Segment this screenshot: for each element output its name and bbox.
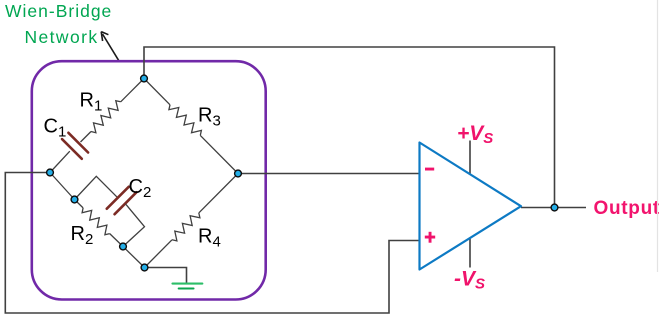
wire bottom node to ground (145, 268, 187, 284)
wire negative supply (469, 238, 471, 268)
wire R2 to P2 (110, 234, 123, 247)
op-amp inverting input sign (425, 168, 434, 171)
svg-text:Wien-Bridge: Wien-Bridge (5, 1, 112, 21)
node left (47, 169, 54, 176)
ground (173, 284, 203, 289)
wire C2 branch upper (75, 176, 117, 199)
wire arm T-R upper (144, 79, 170, 105)
wire arm T-R lower (200, 135, 238, 173)
wire positive supply (469, 141, 471, 175)
op-amp U1 (420, 143, 522, 270)
svg-text:Network: Network (25, 27, 99, 47)
node P1 (71, 196, 78, 203)
node P2 (120, 243, 127, 250)
Wien-Bridge network box (32, 61, 266, 299)
capacitor C2 (107, 187, 137, 214)
svg-text:Output: Output (594, 198, 660, 219)
wire output (521, 207, 586, 209)
node right (235, 170, 242, 177)
node output (551, 204, 558, 211)
capacitor C1 (62, 133, 88, 159)
resistor R1 (91, 101, 121, 133)
wire R4 to right node (199, 174, 238, 213)
wire right node to inverting input (238, 173, 420, 175)
page edge line (657, 0, 659, 272)
resistor R2 (82, 208, 110, 235)
wire left loop to non-inverting input (5, 173, 419, 314)
wire C2 branch lower (123, 204, 145, 247)
wire bottom node to R4 (145, 240, 173, 268)
resistor R3 (169, 105, 202, 136)
node top (141, 75, 148, 82)
wire arm T-L upper (121, 79, 144, 102)
wire P2 to bottom node (123, 247, 145, 268)
annotation arrow (101, 32, 118, 61)
resistor R4 (172, 213, 200, 241)
wire feedback top (144, 47, 555, 208)
wire arm T-L middle (81, 132, 92, 143)
wire L to node P1 (50, 173, 75, 200)
wire P1 to R2 (75, 200, 84, 208)
op-amp non-inverting input sign (425, 232, 435, 243)
wire arm T-L lower (50, 151, 70, 172)
node bottom (141, 264, 148, 271)
